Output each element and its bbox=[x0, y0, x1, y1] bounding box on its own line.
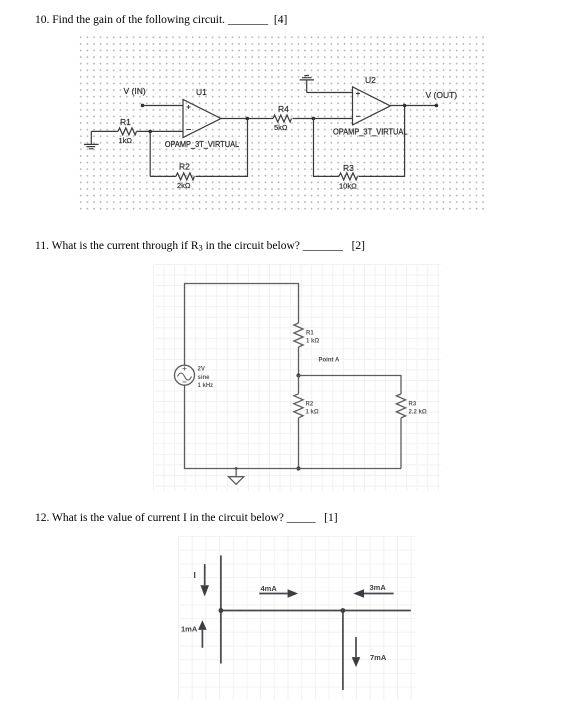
wire right vertical branch bbox=[342, 611, 344, 691]
current arrow 3mA (left) bbox=[353, 583, 393, 598]
node U1 output junction bbox=[246, 117, 250, 121]
svg-text:1 kΩ: 1 kΩ bbox=[306, 410, 319, 416]
svg-text:10kΩ: 10kΩ bbox=[339, 182, 357, 191]
svg-text:1kΩ: 1kΩ bbox=[119, 136, 133, 145]
svg-text:sine: sine bbox=[198, 375, 211, 381]
source sine mark bbox=[178, 373, 192, 380]
node ground tap junction bbox=[235, 467, 238, 470]
svg-text:5kΩ: 5kΩ bbox=[274, 123, 288, 132]
wire GND1 to R1 bbox=[91, 130, 118, 132]
U1 - pin mark bbox=[187, 129, 192, 131]
U2 - pin mark bbox=[356, 115, 361, 117]
U1 + pin mark bbox=[187, 105, 191, 109]
wire top loop (source to R1 branch) bbox=[185, 284, 299, 366]
current arrow 7mA (down) bbox=[352, 637, 387, 667]
svg-text:2.2 kΩ: 2.2 kΩ bbox=[409, 410, 427, 416]
wire left vertical branch bbox=[220, 555, 222, 663]
resistor R2 (vertical) bbox=[294, 394, 303, 418]
wire R1 to Point A bbox=[298, 347, 300, 376]
wire R3 bottom lead bbox=[400, 418, 402, 469]
node left junction bbox=[219, 608, 224, 613]
svg-text:7mA: 7mA bbox=[370, 653, 387, 662]
current arrow 4mA (right) bbox=[259, 584, 298, 598]
wire junction down to R2 bbox=[149, 131, 151, 176]
source V1 2V sine 1kHz bbox=[175, 365, 195, 385]
op-amp U2 bbox=[353, 87, 391, 125]
svg-text:R4: R4 bbox=[278, 104, 289, 114]
svg-text:OPAMP_3T_VIRTUAL: OPAMP_3T_VIRTUAL bbox=[165, 139, 240, 149]
svg-text:V (OUT): V (OUT) bbox=[426, 90, 458, 100]
svg-text:R1: R1 bbox=[306, 331, 314, 337]
wire R3 left lead bbox=[313, 175, 339, 177]
svg-text:1 kHz: 1 kHz bbox=[198, 383, 214, 389]
op-amp U1 bbox=[183, 100, 221, 138]
svg-text:V (IN): V (IN) bbox=[124, 86, 146, 96]
svg-text:3mA: 3mA bbox=[370, 583, 387, 592]
wire horizontal node rail bbox=[221, 610, 411, 612]
wire U2 output to V(OUT) bbox=[390, 105, 436, 107]
svg-text:2V: 2V bbox=[198, 367, 205, 373]
node V(IN) terminal bbox=[141, 104, 145, 108]
node Point A junction bbox=[296, 373, 300, 377]
svg-text:1 kΩ: 1 kΩ bbox=[306, 339, 319, 345]
wire U1 output to R4 bbox=[221, 118, 273, 120]
wire GND2 to U2 non-inverting input bbox=[307, 92, 353, 94]
svg-text:OPAMP_3T_VIRTUAL: OPAMP_3T_VIRTUAL bbox=[333, 127, 408, 137]
wire R2 left lead bbox=[150, 175, 176, 177]
wire R2 leads bbox=[298, 376, 300, 469]
wire V(IN) to U1 non-inverting input bbox=[143, 105, 184, 107]
node right junction bbox=[341, 608, 346, 613]
svg-text:Point A: Point A bbox=[319, 358, 340, 364]
ground (bottom rail) bbox=[229, 469, 244, 485]
resistor R3 bbox=[339, 173, 358, 180]
resistor R4 bbox=[273, 115, 292, 122]
wire R3 right lead up to U2 output bbox=[359, 106, 405, 177]
resistor R1 bbox=[118, 128, 137, 135]
svg-text:R2: R2 bbox=[179, 161, 190, 171]
wire junction down to R3 bbox=[313, 119, 315, 177]
ground GND1 (left of R1) bbox=[84, 131, 99, 148]
svg-text:4mA: 4mA bbox=[261, 584, 278, 593]
wire bottom rail bbox=[185, 385, 402, 468]
wire Point A to R3 branch bbox=[299, 376, 402, 394]
node bottom junction (R2 / bottom rail) bbox=[296, 466, 300, 470]
wire R4 to U2 inverting input bbox=[293, 118, 353, 120]
junction node (R1 / U1- / R2) bbox=[148, 130, 152, 134]
svg-text:I: I bbox=[194, 570, 196, 580]
svg-text:R3: R3 bbox=[409, 402, 417, 408]
ground GND2 (above U2, inverted) bbox=[300, 76, 314, 93]
resistor R1 (vertical) bbox=[294, 323, 303, 347]
svg-text:2kΩ: 2kΩ bbox=[177, 181, 191, 190]
svg-text:R3: R3 bbox=[343, 163, 354, 173]
source - mark bbox=[183, 381, 187, 383]
svg-text:U2: U2 bbox=[365, 75, 376, 85]
svg-text:R2: R2 bbox=[306, 402, 314, 408]
node V(OUT) terminal bbox=[435, 104, 439, 108]
current arrow 1mA (up) bbox=[181, 620, 207, 648]
resistor R2 bbox=[176, 173, 195, 180]
source + mark bbox=[183, 367, 187, 371]
wire R1 to U1 inverting input bbox=[137, 130, 184, 132]
svg-text:R1: R1 bbox=[120, 117, 131, 127]
current arrow I (down) bbox=[194, 564, 210, 596]
wire R2 right lead up to U1 output bbox=[195, 119, 247, 177]
svg-text:1mA: 1mA bbox=[181, 625, 198, 634]
junction node (R4 / U2- / R3) bbox=[312, 117, 316, 121]
U2 + pin mark bbox=[356, 92, 360, 96]
svg-text:U1: U1 bbox=[196, 87, 207, 97]
node U2 output junction bbox=[403, 104, 407, 108]
resistor R3 (vertical) bbox=[396, 394, 405, 418]
